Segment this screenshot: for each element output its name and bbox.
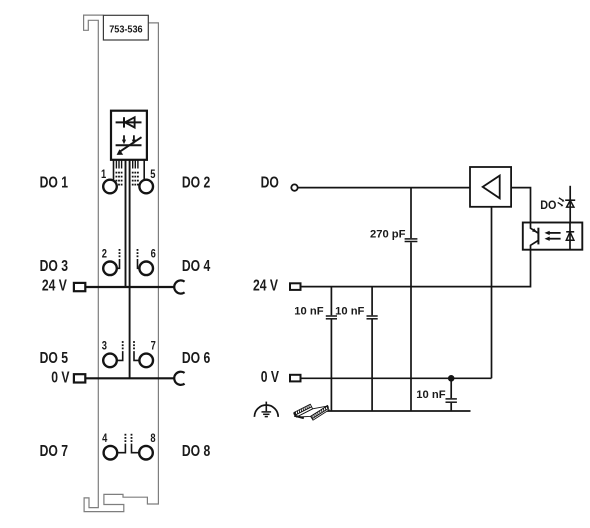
junction dot on 0 V rail (448, 375, 455, 382)
capacitor C3 10 nF (367, 287, 378, 411)
svg-text:1: 1 (101, 168, 106, 182)
earth symbol (254, 402, 278, 417)
svg-text:DO: DO (540, 199, 556, 213)
module order-number box 753-536 (103, 15, 148, 40)
wire: contact 2 riser (117, 249, 121, 268)
0 V pass-through socket (arc) (174, 372, 184, 385)
terminal contact 2 (102, 247, 117, 275)
wire: 0 V rail (module) (85, 377, 174, 379)
terminal contact 1 (101, 168, 117, 193)
wire: DO line to buffer (298, 187, 470, 189)
svg-text:10 nF: 10 nF (335, 305, 364, 317)
wire: ground rail (327, 410, 471, 412)
wire: DO tap down to C1 (410, 188, 412, 239)
output buffer U1 (470, 167, 511, 207)
phototransistor Q1 (531, 223, 539, 250)
wire: 24 V rail (module) (85, 286, 174, 288)
wire: buffer ground leg down to 0 V rail (491, 207, 493, 378)
wire: C1 to ground rail (410, 242, 412, 411)
terminal contact 6 (139, 247, 155, 275)
terminal contact 7 (139, 339, 155, 367)
svg-text:DO 4: DO 4 (182, 257, 210, 275)
capacitor C1 270 pF (405, 239, 418, 242)
0 V feed terminal (square) (74, 374, 85, 382)
node DO (schematic input) (291, 184, 297, 190)
svg-text:DO 6: DO 6 (182, 350, 210, 368)
status LED D4 (558, 186, 576, 223)
svg-text:24 V: 24 V (253, 277, 278, 295)
24 V terminal (schematic square) (290, 283, 301, 290)
svg-text:3: 3 (102, 339, 107, 353)
svg-text:6: 6 (151, 247, 156, 261)
24 V feed terminal (square) (74, 283, 85, 291)
svg-text:DO 3: DO 3 (40, 257, 68, 275)
ribbon dotted segments (hidden wires) (116, 172, 139, 186)
svg-text:DO 8: DO 8 (182, 442, 210, 460)
svg-text:0 V: 0 V (261, 369, 280, 387)
terminal contact 4 (102, 432, 117, 460)
wire: contact 4 link (117, 434, 126, 453)
svg-text:5: 5 (150, 168, 155, 182)
wire: 24 V rail to optocoupler emitter (301, 250, 531, 287)
terminal contact 3 (102, 339, 117, 367)
svg-text:7: 7 (151, 339, 156, 353)
svg-text:2: 2 (102, 247, 107, 261)
24 V pass-through socket (arc) (174, 280, 184, 293)
capacitor C2 10 nF (326, 287, 337, 411)
wire: contact 8 link (131, 434, 140, 453)
svg-text:8: 8 (150, 432, 155, 446)
svg-text:DO 5: DO 5 (40, 350, 68, 368)
wire: internal bus pair (126, 160, 130, 378)
terminal contact 5 (139, 168, 155, 193)
diode D1 (top, in indicator block) (116, 117, 142, 127)
svg-text:DO 1: DO 1 (40, 174, 68, 192)
svg-text:DO 2: DO 2 (182, 174, 210, 192)
wire ribbon from indicator block to contacts (114, 160, 145, 181)
wire: buffer output to optocoupler collector (511, 188, 530, 223)
optocoupler light arrows (545, 231, 561, 241)
svg-text:270 pF: 270 pF (370, 229, 406, 241)
0 V terminal (schematic square) (290, 375, 301, 382)
terminal contact 8 (139, 432, 155, 460)
svg-text:0 V: 0 V (51, 369, 70, 387)
svg-text:753-536: 753-536 (109, 24, 143, 36)
svg-text:DO 7: DO 7 (40, 442, 68, 460)
wire: contact 7 riser (133, 341, 140, 360)
module outline (84, 15, 159, 512)
DIN rail clamp icon (294, 404, 329, 420)
capacitor C4 10 nF (446, 378, 457, 411)
wire: contact 3 riser (117, 341, 124, 360)
status LED D2 (bottom, in indicator block) (116, 135, 142, 155)
svg-text:4: 4 (102, 432, 107, 446)
svg-text:DO: DO (261, 174, 279, 192)
svg-text:10 nF: 10 nF (294, 305, 323, 317)
svg-text:10 nF: 10 nF (416, 389, 445, 401)
optocoupler LED D3 (566, 223, 574, 250)
svg-text:24 V: 24 V (42, 277, 67, 295)
wire: contact 6 riser (137, 249, 140, 268)
LED indicator block (111, 111, 147, 160)
optocoupler U2 box (523, 223, 583, 250)
wire: 0 V rail (301, 377, 492, 379)
